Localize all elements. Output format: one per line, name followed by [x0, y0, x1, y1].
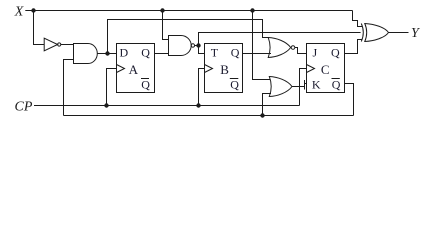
svg-text:T: T [211, 45, 219, 59]
wire: AND output up to rail2, rail2 to NOR top input [108, 20, 269, 54]
wire: NAND output jog down to T [195, 46, 205, 54]
svg-text:Q: Q [332, 77, 341, 91]
wire: X down to inverter [34, 11, 45, 45]
flip-flop B box [205, 44, 243, 93]
wire: B.Q to NOR lower input [243, 53, 272, 55]
NAND gate G2 [169, 36, 192, 56]
flip-flop A box [117, 44, 155, 93]
node: CP to B clock [196, 103, 200, 107]
wire: CP to B clock [199, 69, 205, 106]
wire: feedback to AND lower input [64, 60, 74, 116]
node: X tap to inverter [31, 8, 35, 12]
node: feedback tap to OR [260, 113, 264, 117]
wire: OR output jog up to K [292, 80, 307, 90]
NOR output bubble [291, 46, 295, 50]
flip-flop C box [307, 44, 345, 93]
wire: feedback rail up to OR lower input [263, 94, 272, 116]
svg-text:Q: Q [230, 77, 239, 91]
XOR input arc [361, 24, 363, 42]
node: X tap to OR [250, 8, 254, 12]
AND gate G1 [74, 44, 98, 64]
svg-text:Q: Q [141, 77, 150, 91]
OR gate G4 [269, 77, 292, 97]
wire: CP to A clock [107, 69, 117, 106]
wire: X rail staircase to XOR top input [353, 11, 363, 27]
NAND output bubble [191, 44, 194, 47]
clock triangle A [117, 65, 125, 73]
inverter output bubble [58, 43, 61, 46]
svg-text:X: X [14, 5, 24, 20]
wire: NAND output up to rail3 to XOR middle input [199, 33, 361, 46]
svg-text:C: C [321, 62, 330, 77]
svg-text:A: A [129, 62, 139, 77]
NOR gate G3 [268, 38, 291, 58]
wire: C.Q jog up to XOR bottom input [345, 40, 363, 54]
svg-text:CP: CP [15, 99, 33, 114]
svg-text:Q: Q [141, 45, 150, 59]
node: AND output [105, 51, 109, 55]
node: NAND output [196, 43, 200, 47]
svg-text:Q: Q [331, 45, 340, 59]
wire: AND output to D [97, 53, 116, 55]
svg-text:K: K [312, 77, 321, 91]
wire: CP rail [34, 105, 300, 107]
wire: X down to NAND top input [163, 11, 169, 40]
wire: inverter to AND gate [61, 44, 74, 46]
wire: X down to OR top input [253, 11, 271, 80]
wire: NOR output jog down to J [295, 48, 307, 54]
node: CP to A clock [104, 103, 108, 107]
wire: XOR output to Y [389, 32, 409, 34]
svg-text:Y: Y [411, 26, 421, 41]
inverter (NOT gate) [44, 38, 57, 51]
XOR gate G5 body [365, 24, 389, 42]
wire: X top rail [25, 10, 352, 12]
svg-text:J: J [313, 45, 318, 59]
svg-text:B: B [220, 62, 229, 77]
wire: A.Q to NAND input [155, 53, 169, 55]
clock triangle B [205, 65, 213, 73]
node: X tap to NAND [160, 8, 164, 12]
wire: CP rail end up to C clock [300, 69, 307, 106]
svg-text:Q: Q [231, 45, 240, 59]
wire: C.Qbar down to feedback rail [345, 84, 354, 116]
clock triangle C [307, 65, 315, 73]
wire: feedback rail [64, 115, 354, 117]
svg-text:D: D [120, 45, 129, 59]
